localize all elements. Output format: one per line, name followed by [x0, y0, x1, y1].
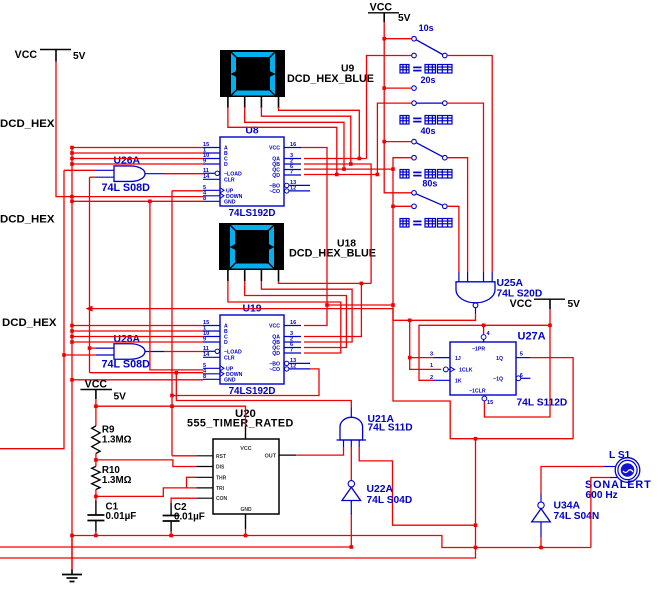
- svg-text:DCD_HEX_BLUE: DCD_HEX_BLUE: [287, 73, 374, 85]
- node key space 1: [400, 65, 409, 74]
- wire RST tie: [172, 455, 196, 457]
- svg-text:14: 14: [203, 174, 210, 180]
- svg-text:~1CLR: ~1CLR: [469, 389, 486, 395]
- svg-text:CON: CON: [216, 496, 228, 502]
- wire U25A out to U27A clock: [410, 314, 476, 369]
- inverter U22A 74LS04D: [342, 481, 412, 516]
- svg-text:1.3MΩ: 1.3MΩ: [102, 475, 132, 486]
- svg-text:U25A: U25A: [497, 278, 524, 289]
- ground: [62, 536, 82, 582]
- svg-text:5: 5: [520, 352, 523, 358]
- timer U20 555: [187, 408, 296, 529]
- svg-text:TRI: TRI: [216, 486, 225, 492]
- svg-text:8: 8: [203, 374, 206, 380]
- node key space 2: [400, 116, 409, 125]
- svg-text:74L S11D: 74L S11D: [368, 423, 413, 434]
- svg-text:U28A: U28A: [114, 334, 141, 345]
- wire sw3 out to U25A: [447, 158, 468, 272]
- svg-text:74L S112D: 74L S112D: [517, 398, 568, 409]
- capacitor C2: [163, 502, 205, 523]
- wire C2 bottom: [170, 521, 172, 532]
- svg-text:10s: 10s: [419, 23, 434, 33]
- wire U9 pins bus: [228, 107, 337, 175]
- speaker LS1 SONALERT: [585, 450, 652, 501]
- svg-text:40s: 40s: [421, 126, 436, 136]
- switch 10s: [412, 23, 447, 58]
- svg-text:~1PR: ~1PR: [472, 347, 485, 353]
- power VCC top-left 5V: [15, 49, 86, 62]
- svg-text:5V: 5V: [73, 51, 86, 62]
- svg-text:20s: 20s: [421, 75, 436, 85]
- wire sw2 bottom to QD: [377, 103, 411, 174]
- wire U18 pins bus: [228, 281, 341, 353]
- svg-text:1.3MΩ: 1.3MΩ: [102, 435, 132, 446]
- svg-text:14: 14: [203, 352, 210, 358]
- wire U8 GND to U19 UP: [150, 201, 203, 370]
- 7-segment display U9: [220, 50, 285, 108]
- svg-text:555_TIMER_RATED: 555_TIMER_RATED: [187, 418, 294, 430]
- wire U19 GND line: [72, 379, 203, 381]
- wire U8 VCC to U19 VCC: [301, 148, 327, 326]
- wire 1Q output: [530, 358, 573, 439]
- wire sw1 out to U25A: [447, 56, 492, 272]
- wire U28A inputs feed: [90, 347, 97, 349]
- svg-text:U34A: U34A: [554, 501, 581, 512]
- svg-text:CLR: CLR: [224, 355, 235, 361]
- svg-text:1CLK: 1CLK: [459, 368, 473, 374]
- svg-text:0.01µF: 0.01µF: [174, 512, 205, 523]
- svg-text:74L S04D: 74L S04D: [367, 495, 413, 506]
- 7-segment display U18: [219, 223, 284, 281]
- counter U8 74LS192D: [203, 126, 310, 220]
- wire U8 UP tie: [172, 190, 203, 192]
- svg-text:7: 7: [290, 348, 293, 354]
- capacitor C1: [87, 502, 136, 523]
- svg-text:VCC: VCC: [85, 379, 108, 391]
- switch 40s: [412, 126, 447, 160]
- svg-text:74L S08D: 74L S08D: [102, 359, 151, 371]
- wire U21A mid input down: [350, 447, 352, 480]
- wire C1 bottom: [95, 521, 97, 532]
- wire R10-C1 junction to THR TRI: [95, 490, 97, 501]
- wire 1J feed: [410, 357, 433, 359]
- svg-text:U26A: U26A: [114, 156, 141, 167]
- svg-text:1Q: 1Q: [496, 356, 503, 362]
- wire U26A bottom input feed: [90, 176, 97, 178]
- wire 555 GND down: [245, 529, 247, 535]
- svg-text:12: 12: [290, 363, 296, 369]
- wire bottom rail 3: [0, 439, 476, 558]
- svg-text:VCC: VCC: [240, 446, 251, 452]
- wire U28A out to U19 LOAD: [164, 351, 203, 353]
- svg-text:~CO: ~CO: [269, 367, 280, 373]
- wire full width line y308: [89, 309, 573, 439]
- wire VCC rail right switches: [384, 22, 412, 193]
- resistor R10: [92, 465, 132, 490]
- wire R9 top: [95, 406, 97, 426]
- svg-text:VCC: VCC: [510, 298, 533, 310]
- switch 20s: [412, 75, 447, 105]
- svg-text:16: 16: [290, 320, 296, 326]
- svg-text:D: D: [224, 340, 228, 346]
- svg-text:DCD_HEX: DCD_HEX: [2, 317, 57, 329]
- flip-flop U27A 74LS112D: [430, 331, 567, 409]
- node key space 4: [400, 219, 409, 228]
- svg-text:DCD_HEX_BLUE: DCD_HEX_BLUE: [289, 248, 376, 260]
- gate U25A 74LS20D NAND: [456, 272, 542, 315]
- svg-text:~1Q: ~1Q: [493, 377, 503, 383]
- svg-text:2: 2: [430, 375, 433, 381]
- svg-text:GND: GND: [224, 377, 236, 383]
- op-amp U28A 74LS08D AND gate: [96, 334, 164, 371]
- svg-text:VCC: VCC: [269, 324, 280, 330]
- wire sw1 bottom to QA: [367, 56, 412, 159]
- svg-text:RST: RST: [216, 454, 226, 460]
- svg-text:~CO: ~CO: [269, 189, 280, 195]
- svg-text:DIS: DIS: [216, 465, 225, 471]
- svg-text:12: 12: [290, 185, 296, 191]
- svg-text:3: 3: [430, 352, 433, 358]
- svg-text:9: 9: [203, 159, 206, 165]
- svg-text:GND: GND: [224, 199, 236, 205]
- svg-text:DCD_HEX: DCD_HEX: [0, 214, 55, 226]
- wire sw2 out to U25A: [447, 103, 483, 272]
- wire U34A out to sonalert: [541, 467, 604, 494]
- wire branch to U19 vcc net: [327, 304, 393, 306]
- wire CON to C2: [171, 498, 196, 503]
- svg-text:CLR: CLR: [224, 177, 235, 183]
- svg-text:U22A: U22A: [367, 484, 394, 495]
- wire VCC to U27A PR K CLR: [484, 309, 550, 417]
- counter U19 74LS192D: [203, 304, 310, 398]
- inverter U34A 74LS04N: [532, 494, 599, 538]
- resistor R9: [92, 425, 132, 454]
- node key space 3: [400, 170, 409, 179]
- svg-text:L S1: L S1: [609, 450, 631, 461]
- wire sw4 out to U25A: [447, 206, 459, 271]
- svg-text:QD: QD: [272, 351, 280, 357]
- wire sonalert return: [591, 478, 610, 548]
- svg-text:5V: 5V: [398, 13, 411, 24]
- svg-text:U27A: U27A: [518, 331, 546, 343]
- svg-text:9: 9: [203, 337, 206, 343]
- svg-text:1K: 1K: [455, 379, 462, 385]
- wire bottom rail 2: [0, 546, 351, 548]
- svg-text:OUT: OUT: [265, 453, 277, 459]
- wire U8 Q lines: [304, 158, 367, 160]
- wire DCD bus U8: [72, 147, 203, 149]
- svg-text:6: 6: [520, 373, 523, 379]
- svg-text:5V: 5V: [114, 392, 127, 403]
- wire VCC2 to 555: [96, 399, 246, 426]
- svg-text:THR: THR: [216, 475, 227, 481]
- wire U22A out down: [350, 515, 352, 547]
- power VCC right 5V: [510, 298, 581, 310]
- svg-text:VCC: VCC: [269, 146, 280, 152]
- svg-text:74LS192D: 74LS192D: [229, 208, 276, 219]
- svg-text:0.01µF: 0.01µF: [106, 511, 137, 522]
- wire U19 DOWN line: [90, 372, 204, 374]
- wire DCD bus U19: [72, 325, 203, 327]
- svg-text:5V: 5V: [568, 299, 581, 310]
- svg-text:8: 8: [203, 196, 206, 202]
- wire U21A output up-left: [176, 373, 351, 408]
- svg-text:DCD_HEX: DCD_HEX: [0, 118, 55, 130]
- op-amp U26A 74LS08D AND gate: [96, 156, 164, 194]
- svg-text:QD: QD: [272, 173, 280, 179]
- svg-text:VCC: VCC: [15, 49, 38, 61]
- gate U21A 74LS11D AND: [337, 408, 413, 448]
- wire U19 CO out: [172, 369, 319, 396]
- wire 555 OUT to U21A: [296, 447, 343, 455]
- svg-text:74L S08D: 74L S08D: [102, 182, 151, 194]
- svg-text:80s: 80s: [422, 179, 437, 189]
- svg-text:1J: 1J: [455, 356, 461, 362]
- power VCC top-right 5V: [368, 2, 411, 25]
- svg-text:15: 15: [487, 400, 493, 406]
- svg-text:GND: GND: [240, 507, 252, 513]
- wire U34A in from rail: [540, 537, 542, 548]
- wire left rail to ground: [71, 148, 73, 570]
- wire bottom rail 1: [72, 536, 591, 548]
- wire switch rail stubs: [384, 38, 412, 40]
- wire R9-R10 junction to DIS: [95, 454, 97, 467]
- wire sw3 sw4 bottoms: [393, 158, 412, 321]
- switch 80s: [412, 179, 447, 209]
- wire U26A out to U8 LOAD: [164, 173, 203, 175]
- wire VCC rail left: [56, 62, 203, 197]
- svg-text:16: 16: [290, 142, 296, 148]
- svg-text:D: D: [224, 162, 228, 168]
- wire U21A right input path: [359, 447, 475, 525]
- power VCC mid-left 5V: [81, 379, 127, 403]
- wire U8 GND line: [72, 200, 203, 202]
- node net arrow: [86, 306, 93, 312]
- svg-text:VCC: VCC: [370, 2, 393, 14]
- svg-text:1: 1: [430, 363, 433, 369]
- svg-text:74L S04N: 74L S04N: [554, 511, 600, 522]
- svg-text:7: 7: [290, 170, 293, 176]
- wire U26A top input feed: [64, 169, 96, 171]
